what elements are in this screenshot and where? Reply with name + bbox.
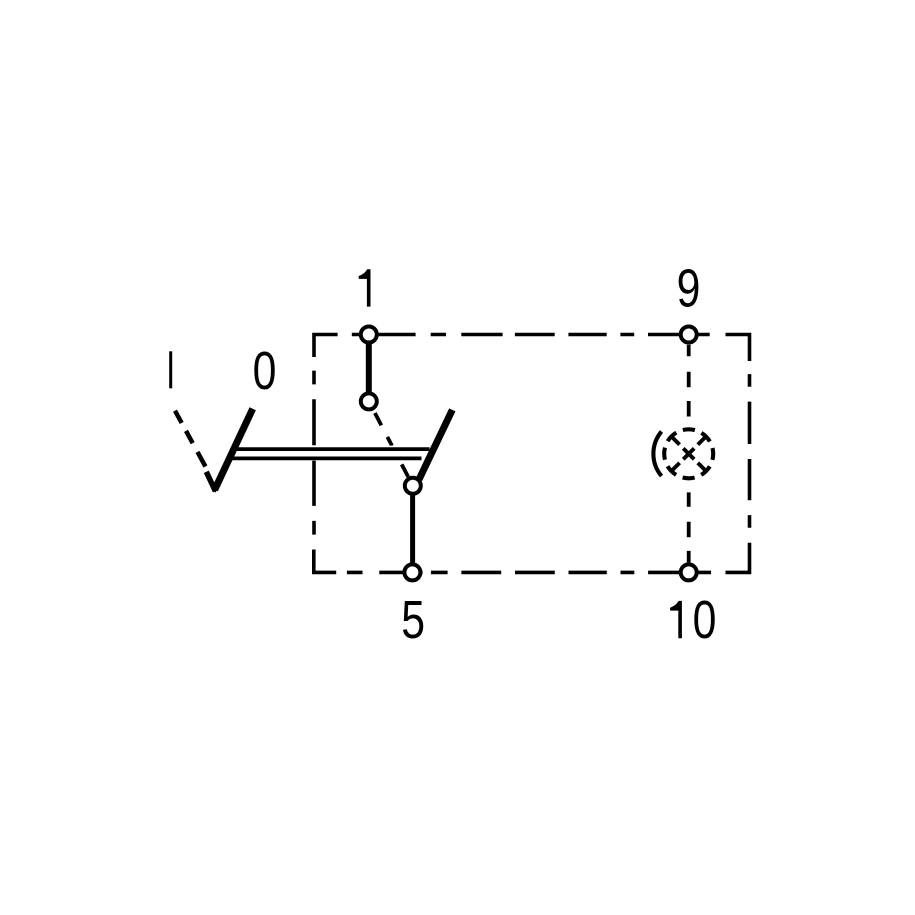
svg-text:9: 9 xyxy=(677,259,701,319)
switch body outline: bottom edge with corner wraps xyxy=(314,550,750,572)
svg-text:0: 0 xyxy=(693,591,717,651)
lamp X diagonal NW-SE xyxy=(671,436,707,472)
pivot circle xyxy=(361,393,377,409)
switch contact lever (pole) xyxy=(419,410,452,480)
dashed diagonal (movable contact path from pivot to contact 5) xyxy=(374,410,409,477)
rocker coupling double bar: top line xyxy=(231,447,430,451)
terminal 10 circle xyxy=(681,564,697,580)
label 1 (terminal 1) xyxy=(359,269,371,306)
actuator lever solid (position 0) xyxy=(215,409,253,490)
switch body outline: left edge xyxy=(312,356,316,550)
terminal 5 circle xyxy=(404,564,420,580)
dashed wire terminal 9 to lamp xyxy=(687,345,691,426)
actuator vertex fill xyxy=(211,486,219,493)
terminal 1 circle xyxy=(361,327,377,343)
illumination arc left of lamp xyxy=(653,432,661,477)
label 10 : digit 1 xyxy=(670,601,682,638)
actuator stub toward position I xyxy=(206,472,215,491)
wire terminal1 to pivot xyxy=(366,335,372,402)
label I (actuator position) xyxy=(169,351,172,388)
dashed wire lamp to terminal 10 xyxy=(687,492,691,562)
svg-text:5: 5 xyxy=(401,591,425,651)
actuator dashed lever (position I) xyxy=(175,410,208,471)
switch body outline: top edge with corner wraps (dash-dot) xyxy=(314,335,750,362)
contact circle xyxy=(405,478,421,494)
white mask under rocker double bar xyxy=(222,446,437,461)
terminal 9 circle xyxy=(681,327,697,343)
svg-text:0: 0 xyxy=(253,341,277,401)
lamp L1 dashed circle xyxy=(664,429,713,478)
lamp X diagonal NE-SW xyxy=(671,436,707,472)
switch body outline: right edge xyxy=(748,361,752,550)
wire contact to terminal 5 xyxy=(410,486,415,573)
rocker coupling double bar: bottom line xyxy=(227,457,422,461)
